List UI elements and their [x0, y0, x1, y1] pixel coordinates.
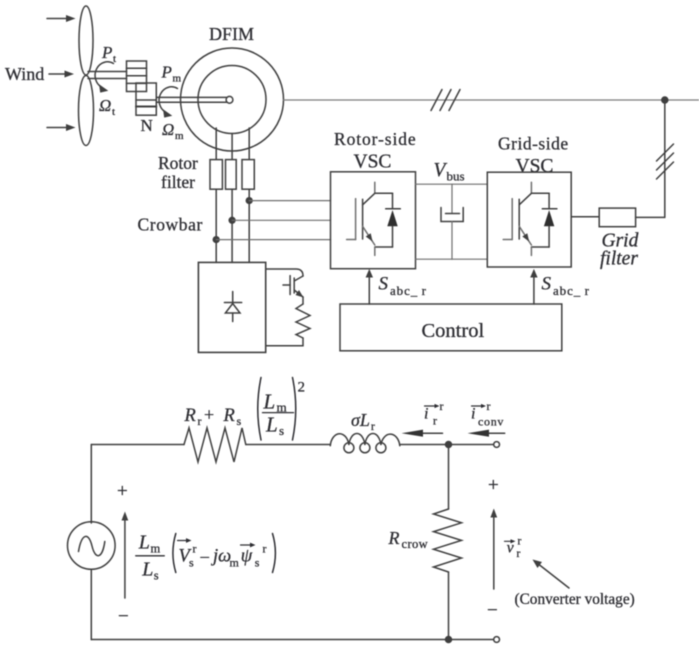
node junction top: [446, 442, 452, 448]
terminal top right: [494, 442, 500, 448]
three-phase slashes on grid vertical wire: [657, 144, 674, 179]
svg-text:Grid-side: Grid-side: [498, 134, 569, 154]
dc link bottom rail: [416, 258, 488, 260]
pointer arrow converter voltage: [533, 560, 570, 589]
arrow v_r: [490, 509, 497, 590]
svg-text:S: S: [379, 274, 389, 295]
svg-text:r: r: [518, 536, 522, 548]
svg-text:filter: filter: [161, 172, 195, 192]
svg-text:r: r: [487, 399, 491, 413]
svg-text:Rotor-side: Rotor-side: [334, 129, 417, 149]
inductor sigma Lr: [330, 434, 400, 453]
svg-text:+: +: [488, 475, 499, 496]
svg-text:+: +: [117, 481, 128, 502]
svg-text:−: −: [118, 606, 129, 627]
rotor filter element c: [242, 160, 254, 190]
svg-text:R: R: [223, 406, 235, 426]
DFIM rotor circle: [198, 66, 266, 134]
svg-text:Control: Control: [422, 320, 485, 342]
svg-text:L: L: [141, 559, 153, 581]
stator wire to grid: [284, 99, 699, 101]
svg-text:S: S: [542, 274, 552, 295]
rotor filter element b: [226, 160, 237, 190]
junction dot phase b: [229, 217, 235, 223]
wire node to Rcrow: [448, 445, 450, 510]
svg-text:σL: σL: [351, 410, 370, 430]
wire phase c to rotor VSC: [249, 200, 330, 202]
crowbar diode D1: [224, 292, 241, 322]
wire resistor to inductor: [246, 444, 330, 446]
svg-text:R: R: [184, 406, 196, 426]
resistor Rcrow: [434, 509, 462, 572]
svg-text:conv: conv: [478, 415, 504, 429]
grid filter element: [599, 208, 635, 227]
crowbar IGBT Q1: [266, 269, 304, 298]
svg-text:abc_ r: abc_ r: [553, 283, 590, 298]
wire filter c down to crowbar: [248, 189, 250, 262]
svg-text:r: r: [371, 421, 375, 433]
rotor filter element a: [210, 160, 222, 190]
svg-text:ψ: ψ: [241, 547, 253, 567]
wind arrow bottom: [47, 124, 76, 131]
gate signal arrow to rotor VSC: [366, 269, 373, 304]
label Grid-side VSC: [498, 134, 569, 178]
wind arrow middle: [49, 71, 74, 78]
svg-text:s: s: [189, 556, 194, 570]
DFIM stator circle: [181, 48, 284, 151]
svg-text:i: i: [471, 406, 475, 423]
svg-text:V: V: [434, 160, 448, 181]
svg-text:+: +: [204, 405, 214, 425]
turbine blade upper: [79, 6, 93, 75]
svg-text:jω: jω: [211, 547, 231, 567]
svg-text:s: s: [237, 414, 242, 428]
label Rotor-side VSC: [334, 129, 417, 173]
rotation arrow Pt: [95, 62, 113, 93]
junction dot phase c: [246, 198, 252, 204]
svg-text:VSC: VSC: [516, 156, 554, 177]
emf arrow: [122, 512, 129, 599]
svg-text:2: 2: [298, 380, 306, 396]
rotor wire a: [215, 128, 217, 160]
wire left vertical bottom: [90, 570, 92, 640]
rotor-side VSC box: [331, 172, 416, 269]
svg-text:m: m: [151, 542, 161, 556]
svg-text:s: s: [154, 569, 159, 583]
svg-text:m: m: [175, 130, 184, 142]
shaft gearbox to DFIM: [156, 96, 233, 103]
svg-text:L: L: [263, 390, 276, 414]
svg-text:t: t: [112, 106, 115, 118]
svg-text:Ω: Ω: [162, 120, 174, 139]
label (Lm/Ls)^2: [258, 378, 305, 441]
svg-text:r: r: [193, 542, 197, 556]
wire filter b down to crowbar: [231, 189, 233, 262]
voltage source V1: [68, 522, 116, 570]
label sigma Lr: [351, 410, 375, 433]
svg-text:crow: crow: [402, 537, 429, 551]
svg-text:s: s: [279, 423, 284, 438]
svg-text:abc_ r: abc_ r: [390, 283, 427, 298]
svg-text:i: i: [424, 406, 428, 423]
label v_r: [505, 536, 522, 561]
svg-text:r: r: [263, 542, 267, 556]
wire top left: [91, 444, 184, 446]
svg-text:r: r: [517, 548, 521, 560]
svg-text:−: −: [487, 600, 498, 621]
dc link top rail: [416, 183, 488, 185]
svg-text:Wind: Wind: [5, 64, 44, 84]
label i_conv: [471, 399, 504, 429]
svg-text:P: P: [101, 43, 112, 62]
capacitor Vbus: [441, 184, 463, 259]
label Rr + Rs: [184, 405, 242, 429]
wire grid filter to grid: [636, 216, 665, 218]
svg-text:(Converter voltage): (Converter voltage): [515, 591, 635, 608]
svg-text:−: −: [200, 549, 210, 569]
gearbox lower block: [136, 83, 156, 115]
gate signal arrow to grid VSC: [530, 269, 537, 304]
svg-text:s: s: [255, 556, 260, 570]
wind arrow top: [47, 15, 76, 22]
wire filter a down to crowbar: [215, 189, 217, 262]
svg-text:Crowbar: Crowbar: [138, 215, 203, 235]
label Sabc_r left: [379, 274, 427, 299]
svg-text:P: P: [161, 63, 172, 82]
svg-text:Ω: Ω: [99, 96, 111, 115]
svg-text:VSC: VSC: [354, 152, 392, 173]
junction dot grid node: [662, 97, 668, 103]
label Rcrow: [388, 528, 429, 551]
turbine blade lower: [79, 76, 94, 146]
grid-side VSC box: [487, 172, 571, 267]
svg-text:m: m: [230, 556, 240, 570]
resistor Rr+Rs: [184, 428, 246, 462]
label Vbus: [434, 160, 465, 184]
grid vertical wire: [664, 100, 666, 217]
rotor wire c: [248, 128, 250, 160]
svg-text:r: r: [433, 414, 437, 428]
svg-text:filter: filter: [600, 249, 638, 270]
svg-text:r: r: [198, 414, 202, 428]
current arrow i_r: [402, 430, 443, 437]
wire Rcrow to bottom: [448, 572, 450, 640]
svg-text:Rotor: Rotor: [158, 153, 198, 173]
gearbox upper block: [127, 61, 147, 92]
wire phase a to rotor VSC: [216, 239, 330, 241]
svg-text:L: L: [265, 413, 278, 437]
label Grid filter: [600, 231, 639, 270]
rotation arrow Omega_m: [159, 87, 177, 118]
shaft turbine to gearbox: [88, 72, 127, 79]
grid-side VSC IGBT symbol: [503, 182, 557, 255]
label Sabc_r right: [542, 274, 590, 299]
label Rotor filter: [158, 153, 198, 192]
rotor wire b: [231, 134, 233, 160]
wire left vertical top: [90, 445, 92, 524]
junction dot phase a: [213, 237, 219, 243]
current arrow i_conv: [468, 430, 505, 437]
svg-text:bus: bus: [447, 169, 465, 184]
svg-text:N: N: [141, 116, 153, 135]
control box: [340, 304, 562, 351]
svg-text:r: r: [440, 399, 444, 413]
terminal bottom right: [494, 637, 500, 643]
svg-text:L: L: [138, 532, 150, 554]
wire bottom: [91, 639, 493, 641]
svg-text:R: R: [388, 528, 400, 548]
node junction bottom: [446, 637, 452, 643]
crowbar resistor: [266, 297, 310, 346]
label i_r: [424, 399, 444, 428]
wire phase b to rotor VSC: [232, 219, 330, 221]
wire inductor to node: [400, 444, 494, 446]
svg-text:DFIM: DFIM: [209, 24, 254, 44]
wire grid VSC to grid filter: [571, 216, 599, 218]
crowbar box: [198, 262, 265, 352]
rotor-side VSC IGBT symbol: [347, 182, 401, 255]
label source formula: [136, 532, 276, 583]
svg-text:m: m: [173, 73, 182, 85]
three-phase slashes on stator wire: [431, 90, 460, 111]
